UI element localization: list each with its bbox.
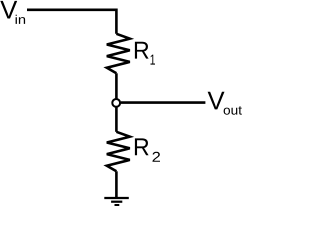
- ground: [104, 198, 129, 205]
- R1 value label: [135, 42, 155, 65]
- wire R2 to ground: [115, 171, 118, 198]
- wire from Vin to top of R1: [27, 10, 116, 34]
- node Vout label: [208, 92, 242, 115]
- resistor R1: [107, 34, 130, 74]
- wire from R1 to node: [115, 73, 118, 98]
- R2 value label: [135, 138, 160, 161]
- node Vin label: [0, 1, 25, 24]
- wire node to R2: [115, 107, 118, 132]
- node junction (open circle): [112, 99, 120, 107]
- resistor R2: [107, 132, 130, 172]
- wire node to Vout: [121, 101, 205, 104]
